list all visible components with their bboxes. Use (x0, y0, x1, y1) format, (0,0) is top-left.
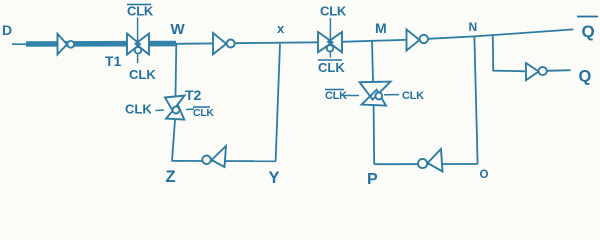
wire (175, 44, 178, 96)
svg-text:x: x (277, 21, 285, 36)
wire (26, 41, 176, 47)
wire (172, 120, 175, 161)
wire (374, 163, 478, 165)
inverter U6 (202, 146, 226, 167)
wire (373, 106, 376, 165)
inverter U2 (213, 33, 235, 54)
transmission gate T2 (156, 96, 195, 120)
svg-text:CLK: CLK (127, 4, 154, 19)
svg-text:M: M (375, 20, 387, 36)
svg-text:CLK: CLK (318, 60, 345, 75)
svg-text:N: N (469, 20, 478, 34)
wire (276, 44, 280, 161)
svg-text:Z: Z (166, 168, 176, 186)
svg-text:W: W (171, 21, 186, 38)
label CLK-bar (T2 right) (193, 107, 214, 119)
wire (547, 69, 571, 72)
wire (372, 40, 373, 82)
label CLK-bar (T3 bottom) (318, 60, 345, 75)
inverter U5 (418, 149, 443, 172)
svg-text:T2: T2 (185, 87, 202, 103)
transmission gate T3 (318, 18, 342, 58)
svg-text:D: D (2, 22, 12, 38)
inverter U3 (407, 30, 428, 51)
svg-text:CLK: CLK (125, 102, 152, 117)
svg-text:CLK: CLK (320, 4, 347, 19)
svg-text:CLK: CLK (129, 67, 156, 82)
svg-text:Q: Q (579, 68, 592, 86)
node Q-bar (577, 17, 598, 42)
transmission gate T4 (343, 82, 399, 106)
svg-text:Q: Q (582, 22, 595, 41)
wire (474, 37, 477, 164)
wire (493, 36, 525, 71)
label CLK-bar (T4 left) (325, 90, 347, 103)
svg-text:CLK: CLK (325, 90, 347, 102)
inverter U1 (58, 34, 75, 55)
transmission gate T1 (127, 18, 149, 64)
wire (172, 160, 277, 162)
svg-text:CLK: CLK (193, 107, 214, 119)
svg-text:T1: T1 (105, 53, 122, 69)
label CLK-bar (T1 top) (127, 4, 154, 19)
inverter U4 (526, 63, 547, 80)
wire (12, 43, 30, 45)
svg-text:O: O (480, 169, 489, 181)
svg-text:CLK: CLK (402, 90, 424, 102)
svg-text:P: P (367, 171, 378, 187)
svg-text:Y: Y (269, 169, 280, 187)
wire (176, 29, 574, 43)
